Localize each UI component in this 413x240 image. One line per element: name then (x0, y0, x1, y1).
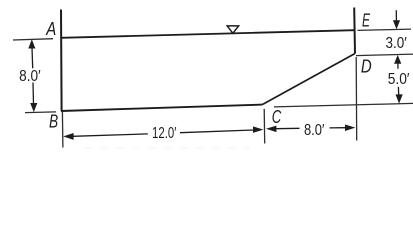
dimension 8.0' bottom right arrowhead (345, 125, 355, 132)
dimension 8.0' left lower shaft (32, 83, 35, 105)
dimension 5.0' lower shaft (397, 87, 399, 95)
water surface nabla symbol (227, 26, 238, 33)
dimension 5.0' up arrowhead (394, 55, 401, 64)
faint scan artifact streak (85, 147, 250, 150)
wire left wall A-B (60, 10, 63, 112)
dimension 3.0' top shaft (395, 10, 397, 20)
extension line at E level right (358, 29, 412, 30)
wire tank bottom B-C (61, 105, 262, 111)
svg-text:A: A (45, 19, 56, 39)
dimension 8.0' bottom left shaft (276, 127, 300, 129)
dimension 8.0' bottom right shaft (330, 127, 346, 129)
wire water surface line A-E (61, 30, 354, 38)
svg-text:3.0′: 3.0′ (386, 35, 407, 52)
dimension 12.0' left shaft (73, 134, 148, 136)
svg-text:8.0′: 8.0′ (304, 122, 325, 139)
extension line at A level (13, 39, 53, 40)
extension line below C (263, 109, 266, 144)
dimension 8.0' left down arrowhead (30, 103, 37, 112)
dimension 12.0' right arrowhead (253, 126, 263, 132)
svg-text:D: D (361, 56, 372, 76)
svg-text:12.0′: 12.0′ (152, 125, 176, 142)
svg-text:C: C (272, 107, 282, 127)
svg-text:E: E (362, 10, 371, 30)
wire slanted wall C-D (262, 54, 355, 105)
dimension 5.0' down arrowhead (396, 94, 403, 103)
dimension 8.0' left up arrowhead (28, 39, 35, 48)
svg-text:8.0′: 8.0′ (19, 68, 41, 85)
dimension 5.0' upper shaft (397, 63, 399, 69)
dimension 8.0' left upper shaft (31, 48, 34, 69)
extension line below D (355, 57, 358, 141)
dimension 12.0' right shaft (180, 130, 254, 133)
wire right wall E-D (353, 8, 356, 54)
svg-text:B: B (49, 112, 58, 132)
dimension 8.0' bottom left arrowhead (266, 126, 276, 133)
svg-text:5.0′: 5.0′ (388, 71, 410, 88)
extension line below B (61, 112, 64, 148)
extension line at C level right (274, 103, 413, 107)
dimension 3.0' down arrowhead (393, 20, 400, 29)
dimension 12.0' left arrowhead (63, 133, 73, 140)
extension line at D level right (356, 54, 413, 56)
extension line at B level (25, 111, 56, 114)
